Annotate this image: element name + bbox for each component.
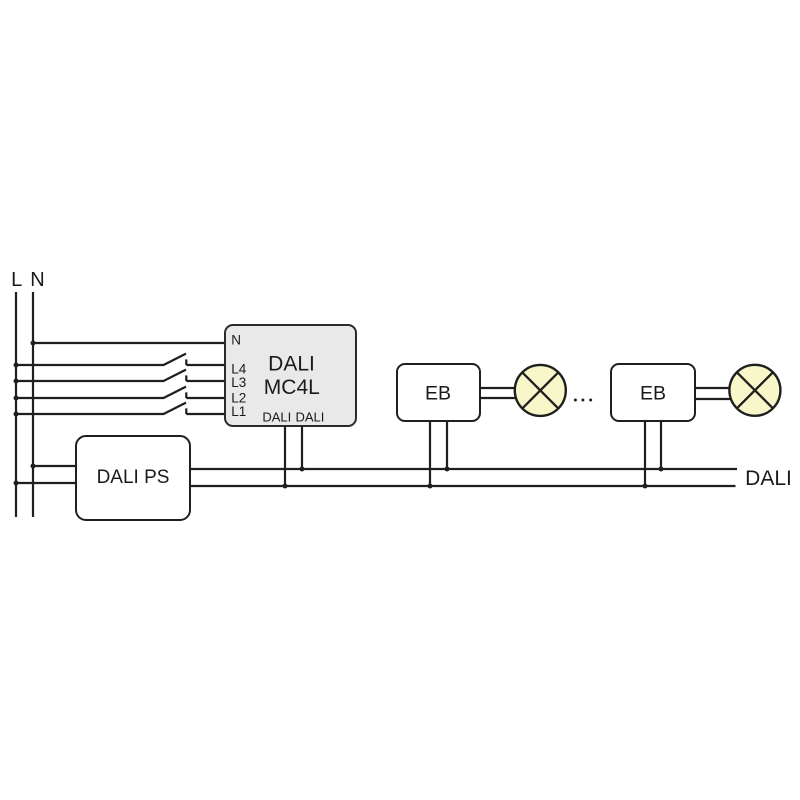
svg-text:N: N bbox=[231, 333, 241, 348]
svg-text:L3: L3 bbox=[231, 375, 246, 390]
svg-text:EB: EB bbox=[425, 383, 451, 405]
svg-text:L: L bbox=[11, 269, 22, 291]
svg-text:DALI: DALI bbox=[268, 353, 315, 376]
svg-text:DALI PS: DALI PS bbox=[97, 467, 170, 488]
svg-text:DALI: DALI bbox=[295, 410, 324, 425]
svg-text:EB: EB bbox=[640, 383, 666, 405]
svg-text:N: N bbox=[30, 269, 44, 291]
svg-text:L1: L1 bbox=[231, 404, 246, 419]
svg-text:DALI: DALI bbox=[262, 410, 291, 425]
svg-text:DALI: DALI bbox=[745, 467, 792, 490]
svg-text:MC4L: MC4L bbox=[264, 376, 320, 399]
